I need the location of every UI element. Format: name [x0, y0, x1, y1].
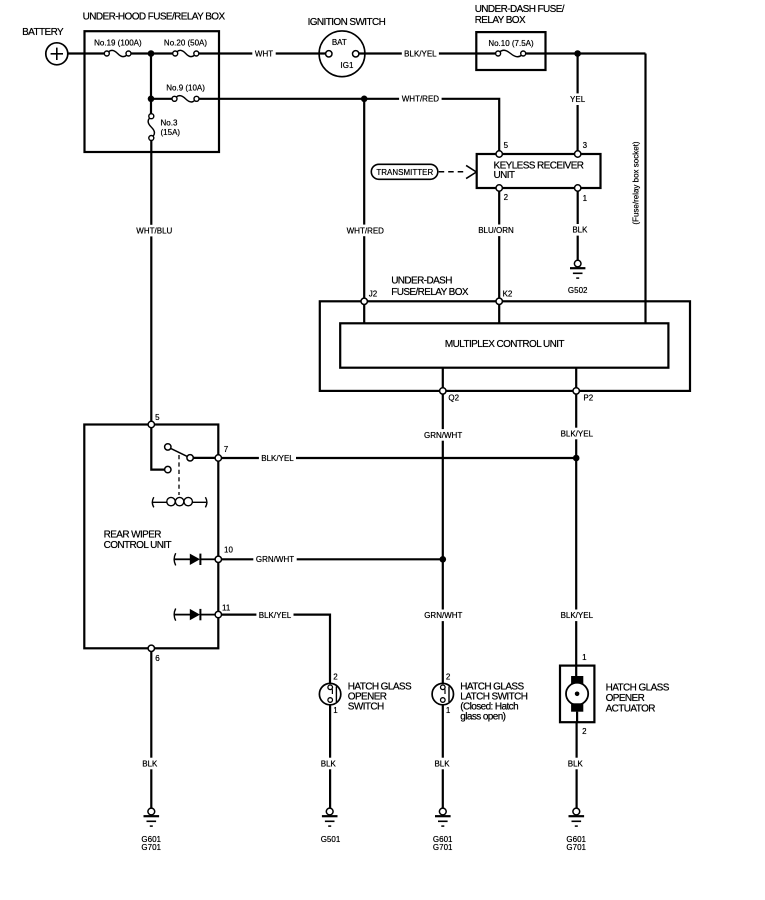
- svg-text:BLU/ORN: BLU/ORN: [478, 226, 514, 235]
- hatch glass opener actuator M1: [560, 653, 670, 736]
- svg-text:UNDER-HOOD FUSE/RELAY BOX: UNDER-HOOD FUSE/RELAY BOX: [83, 12, 226, 23]
- svg-text:(15A): (15A): [161, 128, 181, 137]
- svg-text:BLK/YEL: BLK/YEL: [261, 454, 294, 463]
- ground G502: [568, 260, 588, 295]
- wire fuse No.20 to ignition switch: [199, 52, 326, 54]
- ground G601/G701 left: [141, 808, 161, 852]
- label BLK/YEL terminal 11: [256, 609, 293, 621]
- ground G601/G701 right: [566, 808, 586, 852]
- svg-text:BLK/YEL: BLK/YEL: [561, 429, 594, 438]
- svg-text:WHT/RED: WHT/RED: [347, 226, 385, 235]
- svg-text:3: 3: [583, 141, 588, 150]
- wire terminal 11 to opener switch: [222, 615, 331, 684]
- label GRN/WHT upper: [421, 429, 464, 441]
- svg-text:ACTUATOR: ACTUATOR: [606, 703, 656, 714]
- keyless receiver unit U1: [477, 141, 601, 203]
- node K2 terminal: [496, 289, 513, 304]
- under-hood fuse/relay box: [83, 12, 226, 152]
- svg-text:BATTERY: BATTERY: [22, 27, 64, 38]
- wire fuse No.3 down to rear wiper terminal 5: [150, 141, 152, 422]
- node terminal 6: [148, 645, 160, 663]
- ignition switch: [308, 17, 386, 77]
- svg-text:K2: K2: [503, 289, 513, 298]
- label BLU/ORN: [476, 225, 517, 237]
- svg-text:11: 11: [222, 604, 231, 613]
- wire Q2 down to latch switch (GRN/WHT): [442, 394, 444, 683]
- node terminal 7: [215, 445, 229, 461]
- label BLK/YEL top: [402, 48, 439, 60]
- svg-text:BLK/YEL: BLK/YEL: [561, 611, 594, 620]
- node junction YEL branch: [574, 50, 581, 57]
- svg-text:7: 7: [224, 445, 229, 454]
- svg-text:2: 2: [333, 673, 338, 682]
- label BLK/YEL lower: [558, 610, 595, 622]
- svg-text:G501: G501: [321, 835, 341, 844]
- svg-text:10: 10: [224, 546, 233, 555]
- label YEL: [568, 93, 588, 105]
- node J2 terminal: [361, 289, 378, 304]
- wire relay common to terminal 7: [193, 457, 215, 459]
- hatch glass opener switch: [319, 673, 412, 716]
- svg-text:FUSE/RELAY BOX: FUSE/RELAY BOX: [391, 287, 469, 298]
- wire J2 vertical from WHT/RED junction: [363, 99, 365, 298]
- svg-text:1: 1: [582, 653, 587, 662]
- svg-text:BLK/YEL: BLK/YEL: [404, 49, 437, 58]
- diode D1 at terminal 10: [174, 553, 215, 565]
- wire terminal 7 to P2 junction: [222, 457, 577, 459]
- fuse No.20 (50A): [164, 39, 207, 57]
- svg-text:2: 2: [504, 193, 509, 202]
- wire left column junction down to fuse No.9 junction: [150, 54, 152, 99]
- svg-text:BAT: BAT: [332, 38, 347, 47]
- fuse No.19 (100A): [94, 39, 142, 57]
- node terminal 10: [215, 546, 233, 563]
- svg-text:OPENER: OPENER: [606, 693, 645, 704]
- relay switch contacts: [165, 444, 194, 473]
- svg-text:CONTROL UNIT: CONTROL UNIT: [104, 540, 172, 551]
- wire keyless pin 2 down to K2: [498, 191, 500, 298]
- svg-text:6: 6: [155, 654, 160, 663]
- node junction GRN/WHT: [440, 556, 447, 563]
- wire fuse No.9 to keyless pin 5: [199, 99, 499, 151]
- fuse No.9 (10A): [151, 84, 205, 102]
- wire actuator to ground: [575, 722, 577, 808]
- wire terminal 6 to ground: [150, 652, 152, 809]
- node Q2 terminal: [440, 388, 460, 403]
- wire terminal 5 to relay contact: [151, 428, 164, 470]
- svg-text:G701: G701: [433, 843, 453, 852]
- svg-text:REAR WIPER: REAR WIPER: [104, 529, 162, 540]
- wire latch switch to ground: [442, 705, 444, 808]
- svg-text:RELAY BOX: RELAY BOX: [475, 15, 526, 26]
- svg-text:BLK: BLK: [142, 759, 158, 768]
- node junction at fuse No.9 row: [148, 96, 155, 103]
- wire opener switch to ground G501: [329, 705, 331, 808]
- svg-text:2: 2: [446, 673, 451, 682]
- wire dashed transmitter arrow: [439, 165, 477, 178]
- svg-text:HATCH GLASS: HATCH GLASS: [606, 682, 670, 693]
- svg-text:GRN/WHT: GRN/WHT: [256, 555, 294, 564]
- svg-text:UNIT: UNIT: [494, 170, 515, 181]
- wire K2 to multiplex unit: [498, 305, 500, 324]
- svg-text:No.9 (10A): No.9 (10A): [166, 84, 205, 93]
- svg-text:BLK: BLK: [572, 226, 588, 235]
- label WHT/RED horizontal: [399, 93, 442, 105]
- svg-text:G701: G701: [141, 843, 161, 852]
- svg-text:BLK: BLK: [568, 759, 584, 768]
- multiplex control unit: [340, 323, 668, 367]
- svg-text:G701: G701: [566, 843, 586, 852]
- wire terminal 10 to Q2 junction: [222, 558, 443, 560]
- svg-text:glass open): glass open): [460, 712, 505, 723]
- label BLK column 3: [432, 758, 452, 770]
- svg-text:BLK: BLK: [434, 759, 450, 768]
- wire P2 down to actuator (BLK/YEL): [575, 394, 577, 665]
- ground G601/G701 mid: [433, 808, 453, 852]
- svg-text:(Fuse/relay box socket): (Fuse/relay box socket): [631, 141, 640, 224]
- svg-text:No.20 (50A): No.20 (50A): [164, 39, 207, 48]
- svg-text:5: 5: [504, 141, 509, 150]
- label BLK column 1: [140, 758, 160, 770]
- svg-text:5: 5: [155, 413, 160, 422]
- svg-text:No.10 (7.5A): No.10 (7.5A): [488, 39, 534, 48]
- label WHT/BLU: [134, 225, 175, 237]
- node terminal 5: [148, 413, 160, 428]
- svg-text:IG1: IG1: [341, 61, 354, 70]
- svg-text:GRN/WHT: GRN/WHT: [424, 611, 462, 620]
- svg-text:WHT: WHT: [255, 49, 273, 58]
- svg-text:WHT/BLU: WHT/BLU: [136, 227, 172, 236]
- svg-text:1: 1: [333, 706, 338, 715]
- wire right side vertical (fuse/relay box socket): [644, 54, 646, 324]
- svg-text:GRN/WHT: GRN/WHT: [424, 431, 462, 440]
- svg-text:1: 1: [583, 194, 588, 203]
- wire dashed relay actuation: [178, 455, 180, 495]
- svg-text:YEL: YEL: [570, 95, 586, 104]
- svg-text:P2: P2: [583, 394, 593, 403]
- battery: [22, 27, 68, 65]
- svg-text:BLK: BLK: [321, 759, 337, 768]
- node junction at fuse row: [148, 50, 155, 57]
- relay coil: [152, 497, 207, 507]
- svg-text:TRANSMITTER: TRANSMITTER: [376, 168, 433, 177]
- svg-text:UNDER-DASH: UNDER-DASH: [391, 276, 452, 287]
- label GRN/WHT terminal 10: [253, 554, 296, 566]
- label BLK/YEL P2: [558, 428, 595, 440]
- rear wiper control unit: [84, 425, 218, 649]
- svg-text:BLK/YEL: BLK/YEL: [259, 611, 292, 620]
- svg-text:No.3: No.3: [161, 119, 178, 128]
- node P2 terminal: [573, 388, 594, 403]
- label BLK/YEL terminal 7: [259, 452, 296, 464]
- under-dash fuse/relay box (lower): [320, 276, 690, 391]
- label BLK column 4: [565, 758, 585, 770]
- ground G501: [321, 808, 341, 844]
- svg-text:SWITCH: SWITCH: [348, 702, 384, 713]
- wire fuse No.10 through junction to right corner: [526, 52, 646, 54]
- wire YEL branch down to keyless pin 3: [576, 54, 578, 151]
- wire fuse No.19 to junction: [131, 52, 173, 54]
- transmitter: [371, 164, 438, 179]
- fuse No.3 (15A) vertical: [148, 99, 180, 141]
- svg-text:2: 2: [582, 727, 587, 736]
- diode D2 at terminal 11: [174, 609, 215, 621]
- hatch glass latch switch: [432, 673, 528, 723]
- label BLK column 2: [318, 758, 338, 770]
- svg-text:Q2: Q2: [448, 394, 459, 403]
- wire multiplex to P2: [575, 368, 577, 388]
- svg-text:G502: G502: [568, 286, 588, 295]
- label BLK keyless: [570, 224, 590, 236]
- wire ignition to under-dash box: [359, 52, 476, 54]
- wire box left edge to fuse No.19: [85, 52, 105, 54]
- under-dash fuse/relay box (top): [475, 4, 565, 70]
- wire keyless pin 1 down to ground G502: [577, 191, 579, 260]
- svg-text:No.19 (100A): No.19 (100A): [94, 39, 142, 48]
- wire battery to under-hood box: [68, 52, 85, 54]
- node terminal 11: [215, 604, 231, 618]
- svg-text:J2: J2: [369, 289, 378, 298]
- wire J2 to multiplex unit: [363, 305, 365, 324]
- fuse No.10 (7.5A): [476, 39, 534, 57]
- node junction BLK/YEL at terminal 7 row: [573, 455, 580, 462]
- node junction WHT/RED row: [361, 96, 368, 103]
- svg-text:UNDER-DASH FUSE/: UNDER-DASH FUSE/: [475, 4, 565, 15]
- label GRN/WHT lower: [422, 610, 465, 622]
- label WHT: [252, 48, 275, 60]
- svg-text:WHT/RED: WHT/RED: [402, 95, 440, 104]
- label WHT/RED vertical: [344, 225, 387, 237]
- svg-text:1: 1: [446, 706, 451, 715]
- svg-text:MULTIPLEX CONTROL UNIT: MULTIPLEX CONTROL UNIT: [445, 339, 565, 350]
- svg-text:IGNITION SWITCH: IGNITION SWITCH: [308, 17, 386, 28]
- wire multiplex to Q2: [442, 368, 444, 388]
